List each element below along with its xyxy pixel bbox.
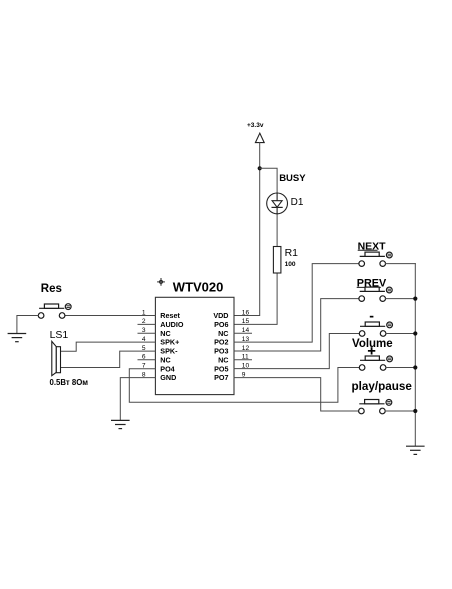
svg-text:D1: D1 [291,197,304,208]
pin 15 number [242,318,250,325]
svg-text:GND: GND [160,373,176,382]
svg-text:+3.3v: +3.3v [247,122,264,129]
pin 12 number [242,345,250,352]
wire BUSY branch to D1/R1 chain and pin 15 [234,168,277,324]
pin 6 stub [138,359,155,361]
svg-text:PO5: PO5 [214,364,228,373]
pin 16 number [242,309,250,316]
svg-text:BUSY: BUSY [279,173,306,184]
pin 13 number [242,336,250,343]
label R1 [285,247,299,259]
wire pin 12 to PREV button [234,299,359,351]
pin 1 stub [65,315,155,317]
pushbutton Res [38,304,71,319]
svg-text:Reset: Reset [160,311,180,320]
label PREV [357,277,387,289]
svg-text:6: 6 [142,354,146,361]
ground bottom right [407,446,424,454]
pin 8 wire GND down [120,378,155,421]
wire PREV to trunk [386,298,416,300]
svg-text:100: 100 [285,261,296,268]
svg-text:NC: NC [218,329,228,338]
ground under pin 8 [112,420,129,428]
pin 11 number and stub [234,354,252,361]
label D1 [291,197,304,208]
node junction dot on +3.3v line [258,166,262,170]
svg-text:PO6: PO6 [214,320,228,329]
svg-text:NC: NC [218,355,228,364]
pushbutton volume minus [359,322,392,336]
wire trunk to ground [414,264,416,446]
pin 7 wire PO4 to volume plus button [129,368,359,403]
svg-text:PO4: PO4 [160,364,174,373]
resistor R1 [273,247,281,274]
node dot trunk plus [413,365,417,369]
pushbutton volume plus [359,356,392,370]
label play/pause [352,380,413,393]
wire pin 9 to play/pause button [234,378,359,411]
label speaker value 0.5W 8Ohm [50,378,89,387]
pin 14 number and stub [234,327,252,334]
label plus [368,347,375,354]
svg-text:SPK-: SPK- [160,347,178,356]
svg-text:1: 1 [142,309,146,316]
pin 5 stub wire to speaker bottom [61,351,155,367]
svg-text:PO2: PO2 [214,338,228,347]
label BUSY [279,173,306,184]
svg-text:5: 5 [142,345,146,352]
pin 4 stub wire to speaker top [61,342,155,351]
node dot trunk minus [413,331,417,335]
svg-text:15: 15 [242,318,250,325]
pushbutton NEXT [359,252,392,266]
wire play/pause to trunk [385,410,415,412]
wire +3.3v down to VDD pin 16 [234,143,260,316]
wire Res left to ground [17,316,38,334]
node dot trunk play/pause [413,409,417,413]
speaker LS1 [52,341,61,375]
IC right pin names [213,311,228,382]
svg-text:4: 4 [142,336,146,343]
value 100 [285,261,296,268]
svg-text:0.5Вт 8Ом: 0.5Вт 8Ом [50,378,89,387]
label Res [41,283,62,295]
svg-text:SPK+: SPK+ [160,338,179,347]
svg-text:AUDIO: AUDIO [160,320,184,329]
pin 9 number [242,371,246,378]
pin 10 number [242,363,250,370]
pushbutton PREV [359,287,392,301]
wire NEXT to trunk [386,263,416,265]
pin numbers left 1-8 [142,309,146,378]
wire minus to trunk [386,333,415,335]
svg-text:NC: NC [160,355,170,364]
label LS1 [50,329,69,341]
power +3.3v label [247,122,264,129]
wire pin 10 to volume minus button [234,334,360,369]
node dot trunk PREV [413,297,417,301]
svg-text:2: 2 [142,318,146,325]
svg-text:R1: R1 [285,247,299,259]
svg-text:VDD: VDD [213,311,228,320]
svg-text:LS1: LS1 [50,329,69,341]
svg-text:7: 7 [142,363,146,370]
IC origin cross marker [158,279,165,286]
ground under Res [8,334,25,342]
label WTV020 [173,280,224,295]
svg-text:WTV020: WTV020 [173,280,224,295]
LED D1 [267,193,288,214]
svg-text:16: 16 [242,309,250,316]
svg-text:NC: NC [160,329,170,338]
pin 2 stub [138,323,155,325]
pushbutton play/pause [359,400,392,414]
IC U1 WTV020 body [155,297,234,394]
pin 3 stub [138,332,155,334]
wire plus to trunk [386,367,415,369]
svg-text:Res: Res [41,283,62,295]
svg-text:PO3: PO3 [214,347,228,356]
svg-text:8: 8 [142,371,146,378]
svg-text:play/pause: play/pause [352,380,413,393]
label NEXT [358,241,387,253]
power +3.3v symbol [255,133,264,142]
svg-text:PO7: PO7 [214,373,228,382]
IC left pin names [160,311,184,382]
svg-text:3: 3 [142,327,146,334]
label Volume [352,338,393,350]
wire pin 13 to NEXT button [234,264,359,343]
label minus [370,316,374,318]
